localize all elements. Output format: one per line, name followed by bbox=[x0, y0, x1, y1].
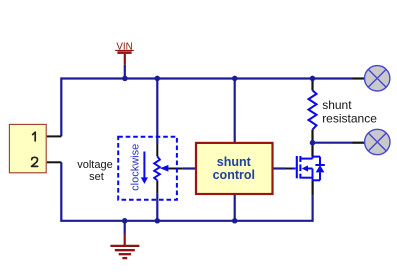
potentiometer wiper arrow bbox=[160, 165, 168, 172]
svg-text:voltage: voltage bbox=[77, 159, 112, 171]
shunt control box U1 bbox=[196, 143, 273, 194]
label voltage set bbox=[77, 159, 112, 183]
svg-text:resistance: resistance bbox=[322, 112, 377, 126]
dashed annotation box potentiometer bbox=[118, 137, 177, 200]
wire pot bottom branch bbox=[156, 180, 158, 220]
label shunt resistance bbox=[322, 98, 377, 125]
diode body diode of Q1 bbox=[313, 157, 325, 181]
power symbol VIN bbox=[115, 41, 134, 78]
node junction ground bbox=[122, 218, 128, 224]
node junction pot top bbox=[155, 76, 161, 82]
node junction shunt control top bbox=[232, 76, 238, 82]
lamp pad bottom bbox=[365, 129, 390, 154]
wire shunt control to gate bbox=[273, 167, 293, 169]
pin 1 label bbox=[33, 132, 36, 141]
wire shunt resistor bottom pin to drain bbox=[311, 130, 313, 156]
label clockwise rotated bbox=[130, 144, 142, 191]
wire shunt control top branch bbox=[234, 79, 236, 143]
svg-text:shunt: shunt bbox=[322, 98, 352, 112]
wire shunt control bottom branch bbox=[234, 194, 236, 221]
node junction pot bottom bbox=[155, 218, 161, 224]
wire wiper to shunt control bbox=[168, 168, 196, 170]
wire lamp 2 branch bbox=[313, 142, 365, 144]
svg-text:control: control bbox=[213, 168, 255, 182]
resistor R1 shunt resistance bbox=[309, 90, 317, 129]
transistor Q1 N-MOSFET bbox=[292, 156, 313, 181]
wire top rail VIN net bbox=[61, 79, 364, 137]
wire left bottom GND net bbox=[61, 162, 312, 221]
arrow clockwise direction bbox=[141, 152, 148, 184]
wire connector pin 1 stub bbox=[47, 135, 62, 137]
potentiometer R2 body bbox=[154, 156, 160, 180]
node junction shunt control bottom bbox=[232, 218, 238, 224]
svg-text:set: set bbox=[89, 171, 104, 183]
wire shunt resistor top pin bbox=[311, 79, 313, 91]
svg-text:shunt: shunt bbox=[217, 155, 252, 169]
wire pot top branch bbox=[156, 79, 158, 157]
lamp pad top bbox=[365, 66, 390, 91]
wire connector pin 2 stub bbox=[47, 161, 62, 163]
pin 2 label bbox=[32, 157, 38, 166]
wire MOSFET source stub bbox=[312, 180, 314, 195]
node junction shunt resistor bottom drain bbox=[310, 140, 316, 146]
node junction shunt resistor top bbox=[310, 76, 316, 82]
node junction VIN on top rail bbox=[122, 76, 128, 82]
ground symbol bbox=[110, 221, 139, 258]
svg-text:clockwise: clockwise bbox=[130, 144, 142, 191]
connector J1 bbox=[9, 124, 46, 172]
